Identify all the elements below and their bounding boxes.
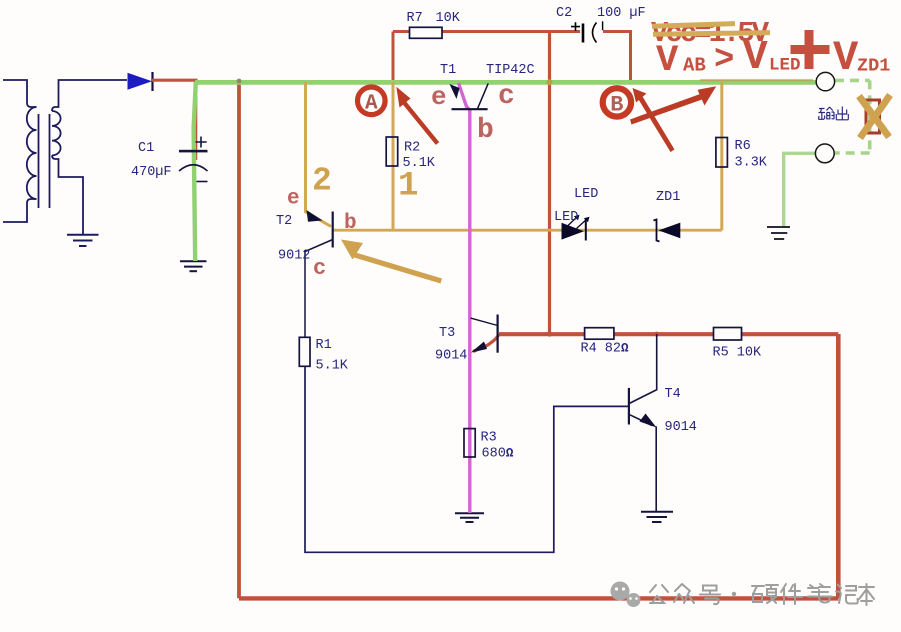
svg-text:R5 10K: R5 10K bbox=[713, 346, 763, 361]
号 bbox=[700, 586, 720, 605]
output terminal bottom bbox=[815, 144, 834, 163]
strikethrough lines on Vcc bbox=[652, 24, 735, 27]
svg-text:A: A bbox=[365, 93, 378, 116]
transformer secondary winding bbox=[52, 111, 61, 155]
wire: T2 emitter drop from bus bbox=[306, 82, 332, 227]
svg-text:C2: C2 bbox=[556, 6, 572, 21]
formula V_AB > V_LED + V_ZD1 bbox=[656, 34, 890, 82]
svg-text:100 µF: 100 µF bbox=[597, 6, 646, 21]
LED diode symbol bbox=[562, 215, 590, 241]
svg-text:T4: T4 bbox=[665, 387, 681, 402]
svg-text:9012: 9012 bbox=[278, 249, 310, 264]
记 bbox=[836, 585, 858, 604]
transformer primary top stub bbox=[3, 80, 37, 107]
label 输出 (output) bbox=[819, 107, 849, 120]
svg-text:c: c bbox=[313, 256, 326, 281]
svg-text:LED: LED bbox=[574, 187, 598, 202]
wire: T2 collector to T4 base (navy) bbox=[305, 366, 629, 552]
capacitor C2 bbox=[571, 21, 603, 42]
svg-text:c: c bbox=[498, 81, 515, 112]
svg-text:9014: 9014 bbox=[665, 420, 697, 435]
svg-text:AB: AB bbox=[683, 55, 706, 77]
svg-text:R7: R7 bbox=[407, 11, 423, 26]
svg-text:R6: R6 bbox=[735, 139, 751, 154]
wire: big red loop left vertical bbox=[237, 81, 241, 599]
transformer primary winding bbox=[27, 107, 37, 199]
ground (output, green) bbox=[767, 227, 790, 239]
众 bbox=[674, 584, 694, 603]
watermark text 公众号·硬件笔记本 bbox=[650, 584, 874, 605]
resistor R1 bbox=[299, 337, 310, 366]
resistor R5 bbox=[714, 328, 742, 341]
本 bbox=[859, 584, 874, 605]
svg-text:LED: LED bbox=[769, 56, 801, 76]
笔 bbox=[808, 584, 832, 603]
svg-text:9014: 9014 bbox=[435, 349, 467, 364]
svg-text:V: V bbox=[833, 34, 859, 82]
node A circle bbox=[358, 87, 386, 116]
transformer core line 2 bbox=[49, 114, 51, 208]
wire: olive edge on bus right bbox=[700, 79, 813, 81]
svg-text:b: b bbox=[477, 115, 494, 146]
transformer secondary top lead bbox=[52, 80, 127, 111]
resistor R7 bbox=[410, 27, 443, 38]
transformer secondary bottom lead bbox=[52, 155, 83, 234]
svg-text:>: > bbox=[714, 42, 734, 80]
svg-text:R1: R1 bbox=[316, 338, 332, 353]
wire: big red loop right vertical bbox=[836, 334, 841, 598]
svg-text:ZD1: ZD1 bbox=[656, 190, 680, 205]
wire: dark red mark on dashed vertical bbox=[866, 100, 880, 133]
resistor R6 bbox=[716, 138, 728, 168]
transistor T2 9012 bbox=[305, 212, 333, 338]
svg-text:T3: T3 bbox=[439, 326, 455, 341]
svg-text:R4 82Ω: R4 82Ω bbox=[581, 342, 630, 357]
svg-text:R2: R2 bbox=[404, 141, 420, 156]
wire: red horizontal through R5 R4 to T3 bbox=[499, 332, 838, 336]
resistor R4 bbox=[585, 328, 614, 340]
output terminal top bbox=[816, 72, 834, 90]
wire: R7 top horizontal to C2 bbox=[393, 30, 580, 33]
硬 bbox=[752, 585, 778, 603]
wire: diode to bus (red) bbox=[152, 79, 198, 82]
wire: big red loop bottom bbox=[239, 596, 838, 600]
svg-text:2: 2 bbox=[312, 163, 332, 200]
ground (C1) bbox=[180, 261, 207, 271]
diode D1 bbox=[128, 72, 153, 91]
wire: T1 base magenta path to R3/ground bbox=[459, 83, 470, 513]
node: bus/x549 junction dot bbox=[547, 79, 553, 85]
svg-text:V: V bbox=[656, 40, 679, 82]
arrow at B (up-left) bbox=[633, 88, 675, 152]
node: T4 collector junction dot bbox=[654, 332, 659, 337]
transformer primary bottom stub bbox=[3, 199, 37, 222]
svg-text:e: e bbox=[431, 82, 447, 112]
zener diode ZD1 bbox=[654, 220, 681, 242]
big plus in formula bbox=[791, 30, 830, 69]
resistor R2 bbox=[386, 137, 398, 166]
svg-text:V: V bbox=[743, 35, 768, 81]
wire: T3 emitter red bend bbox=[473, 334, 499, 352]
wire: output lower terminal to ground bbox=[784, 153, 817, 226]
node: T3 row / x549 junction dot bbox=[547, 331, 552, 336]
transistor T4 9014 bbox=[629, 334, 657, 512]
wire: R7 loop left vertical bbox=[392, 32, 395, 81]
wire: R2 vertical bbox=[392, 82, 395, 230]
node: bus/x239 junction bbox=[237, 79, 242, 84]
svg-text:3.3K: 3.3K bbox=[735, 156, 768, 171]
svg-text:R3: R3 bbox=[481, 431, 497, 446]
svg-text:1: 1 bbox=[398, 168, 418, 206]
svg-text:LED: LED bbox=[554, 210, 578, 225]
big tan arrow at T2 bbox=[341, 240, 442, 284]
watermark logo bbox=[611, 582, 641, 608]
wire: main green bus bbox=[195, 80, 816, 85]
svg-text:B: B bbox=[610, 93, 623, 118]
capacitor C1 bbox=[179, 137, 208, 182]
wire: orange horizontal row y230 bbox=[333, 229, 722, 232]
transformer core line 1 bbox=[38, 114, 40, 208]
arrow at A bbox=[396, 87, 437, 144]
件 bbox=[781, 584, 802, 604]
node B circle bbox=[603, 88, 631, 117]
wire: C2 right to corner bbox=[603, 32, 631, 81]
wire: dashed green output link bbox=[835, 80, 870, 153]
resistor R3 bbox=[464, 429, 475, 457]
svg-text:C1: C1 bbox=[138, 141, 154, 156]
svg-text:b: b bbox=[344, 212, 357, 235]
transistor T1 TIP42C bbox=[452, 83, 489, 109]
wire: C1 green vertical to ground bbox=[194, 82, 196, 261]
svg-text:e: e bbox=[287, 188, 300, 211]
svg-text:ZD1: ZD1 bbox=[857, 56, 890, 77]
svg-text:10K: 10K bbox=[436, 11, 461, 26]
wire: R6 vertical bbox=[720, 82, 723, 230]
ground (T4) bbox=[641, 512, 673, 522]
tan X mark on output bbox=[859, 95, 890, 138]
svg-text:T1: T1 bbox=[440, 63, 456, 78]
dot bbox=[732, 592, 736, 596]
wire: middle vertical x549 top to bus to T3 row bbox=[548, 32, 551, 335]
arrow at B (up-right, big head) bbox=[630, 86, 716, 124]
wire: thin red along C1 green bbox=[195, 81, 197, 160]
svg-text:470µF: 470µF bbox=[131, 165, 172, 180]
svg-text:5.1K: 5.1K bbox=[316, 359, 349, 374]
公 bbox=[650, 585, 668, 603]
transistor T3 9014 bbox=[471, 315, 498, 353]
svg-text:T2: T2 bbox=[276, 214, 292, 229]
svg-text:680Ω: 680Ω bbox=[482, 447, 514, 462]
ground (T3 / R3) bbox=[455, 513, 484, 522]
svg-text:TIP42C: TIP42C bbox=[486, 63, 535, 78]
ground (transformer) bbox=[67, 235, 99, 246]
